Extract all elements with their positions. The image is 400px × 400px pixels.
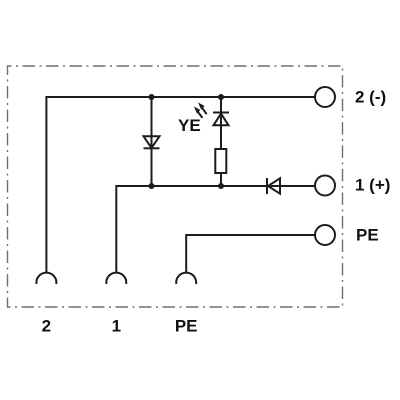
resistor R1	[215, 149, 226, 173]
junction at mid rail / diode branch	[149, 183, 155, 189]
diode V1 (cathode down, between net 2- and net 1+)	[144, 136, 160, 148]
svg-text:PE: PE	[356, 225, 379, 244]
junction at mid rail / resistor branch	[218, 183, 224, 189]
wire: diode branch vertical	[151, 97, 153, 186]
wire: top rail net 2(-)	[46, 96, 315, 98]
terminal circle pin 1 (+)	[315, 176, 335, 196]
wire: LED/resistor branch vertical	[220, 97, 222, 149]
LED light-emission arrow (right)	[199, 103, 207, 114]
wire: drop from net 1(+) to contact 1	[115, 185, 117, 273]
wire: resistor to mid rail	[220, 173, 222, 186]
svg-text:1: 1	[112, 317, 121, 336]
svg-text:2 (-): 2 (-)	[355, 88, 386, 107]
terminal circle pin 2 (-)	[315, 87, 335, 107]
wire: mid rail net 1(+)	[116, 185, 315, 187]
socket contact 1 (arc)	[106, 273, 126, 284]
diode V3 (series in net 1+, cathode left)	[267, 178, 280, 194]
socket contact 2 (arc)	[36, 273, 56, 284]
wire: PE rail	[186, 234, 315, 236]
svg-text:PE: PE	[175, 317, 198, 336]
connector outline (dash-dot boundary)	[8, 66, 343, 307]
LED V2 (cathode up, indicator)	[213, 113, 229, 126]
junction at top rail / diode branch	[149, 94, 155, 100]
terminal circle pin PE	[315, 225, 335, 245]
junction at top rail / LED branch	[218, 94, 224, 100]
socket contact PE (arc)	[176, 273, 196, 284]
wire: left drop from net 2(-) to contact 2	[45, 96, 47, 273]
svg-text:2: 2	[42, 317, 51, 336]
wire: PE drop to contact PE	[185, 234, 187, 273]
svg-text:1 (+): 1 (+)	[355, 176, 390, 195]
LED light-emission arrow (left)	[195, 107, 203, 118]
svg-text:YE: YE	[178, 116, 201, 135]
